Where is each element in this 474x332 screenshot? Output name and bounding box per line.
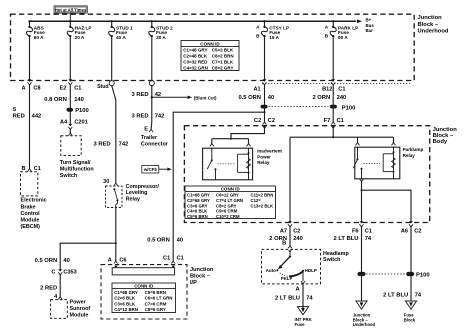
svg-text:C7=6 CRM: C7=6 CRM (145, 301, 167, 306)
svg-text:Block –: Block – (418, 22, 439, 28)
svg-text:A1: A1 (253, 87, 260, 93)
stud terminal 2 (149, 81, 154, 86)
pin A1 (253, 79, 266, 92)
svg-text:C6=12 GRY: C6=12 GRY (216, 193, 239, 198)
pin A C6 i/p (108, 258, 127, 268)
label INT PRK Fuse (295, 317, 313, 327)
svg-text:Relay: Relay (126, 197, 140, 203)
svg-text:C5=6 BRN: C5=6 BRN (187, 214, 208, 219)
svg-text:P100: P100 (416, 273, 430, 279)
switch contact arc dashed (280, 273, 291, 277)
svg-text:240: 240 (293, 236, 303, 242)
svg-text:Module: Module (21, 218, 40, 224)
svg-text:B12: B12 (322, 87, 332, 93)
pin B headlamp switch (282, 240, 292, 252)
wire ABS fuse to pin A C8 (29, 36, 31, 81)
svg-text:74: 74 (306, 296, 313, 302)
relay U2 parklamp relay (353, 147, 400, 179)
svg-text:Junction: Junction (190, 267, 214, 273)
pin arrows parklamp relay (356, 143, 360, 146)
label 2 ORN 240 (lower) (269, 236, 303, 242)
svg-text:C2=68 GRY: C2=68 GRY (187, 198, 210, 203)
pin E2 C1 (60, 79, 82, 91)
svg-text:F6: F6 (352, 229, 359, 235)
svg-text:Leveling: Leveling (126, 190, 148, 196)
label compressor leveling relay (126, 184, 160, 203)
svg-text:2 LT BLU: 2 LT BLU (333, 236, 358, 242)
node parklamp output tee (361, 189, 363, 191)
svg-text:C1=48 GRY: C1=48 GRY (183, 48, 207, 53)
svg-text:C8=2 GRY: C8=2 GRY (212, 66, 234, 71)
electronic brake control module EBCM box (21, 172, 38, 196)
svg-text:C5=6 BRN: C5=6 BRN (145, 290, 166, 295)
svg-text:C2: C2 (293, 229, 300, 235)
svg-text:C6=2 BRN: C6=2 BRN (212, 54, 234, 59)
svg-text:C4=6 BLK: C4=6 BLK (187, 209, 208, 214)
switch contact arc solid hdlp (289, 271, 303, 276)
svg-text:Brake: Brake (21, 204, 36, 210)
svg-text:Junction: Junction (418, 15, 443, 21)
node sunroof branch tee (115, 242, 117, 244)
splice P100 park (330, 105, 355, 112)
svg-text:C12=: C12= (251, 198, 262, 203)
svg-text:C3=6 GRY: C3=6 GRY (187, 203, 208, 208)
wire rail drop to A7 (289, 137, 291, 223)
svg-text:Block –: Block – (433, 133, 454, 139)
svg-text:CONN ID: CONN ID (221, 187, 241, 192)
svg-text:P100: P100 (75, 108, 89, 114)
svg-text:C1: C1 (338, 87, 345, 93)
fuse HAZ LP 20A (67, 20, 91, 40)
svg-text:B: B (282, 240, 286, 246)
svg-text:40 A: 40 A (116, 35, 126, 40)
svg-text:C13=2 BLK: C13=2 BLK (251, 203, 274, 208)
pin A6 C2 (401, 221, 422, 234)
svg-text:C9=6 CRM: C9=6 CRM (216, 209, 238, 214)
svg-text:C1: C1 (163, 255, 170, 261)
svg-text:C3=6 BLK: C3=6 BLK (114, 301, 136, 306)
svg-text:40: 40 (63, 258, 69, 264)
conn id table underhood (181, 41, 239, 71)
wire 5 RED 442 to EBCM (29, 85, 31, 169)
label 3 RED 742 (stud1) (94, 142, 129, 148)
svg-text:CONN ID: CONN ID (134, 284, 154, 289)
wire relay top rail (212, 138, 249, 140)
svg-text:0.5 ORN: 0.5 ORN (35, 258, 58, 264)
label Hot at All Times (54, 6, 87, 21)
pin C1 C1 i/p (163, 255, 184, 267)
label 5 RED 442 (13, 107, 42, 119)
svg-text:(EBCM): (EBCM) (21, 224, 41, 230)
svg-text:INT PRK: INT PRK (295, 317, 313, 322)
svg-text:C1: C1 (177, 255, 184, 261)
connector C353 pin C (51, 269, 76, 275)
wire relay output to A C6 (115, 208, 117, 262)
svg-text:C1=68 GRY: C1=68 GRY (114, 290, 138, 295)
svg-text:40: 40 (268, 95, 274, 101)
svg-text:3 RED: 3 RED (94, 142, 111, 148)
svg-text:RED: RED (13, 114, 25, 120)
svg-text:A: A (22, 86, 26, 92)
svg-text:w/CF5: w/CF5 (143, 167, 157, 172)
svg-text:Inadvertent: Inadvertent (257, 148, 282, 153)
svg-text:C4=12 BRN: C4=12 BRN (114, 307, 138, 312)
svg-text:C353: C353 (63, 269, 76, 275)
junction block underhood dashed box (11, 14, 415, 80)
fuse CTSY LP 15A (256, 20, 289, 40)
svg-text:2 LT BLU: 2 LT BLU (275, 296, 300, 302)
svg-text:C201: C201 (74, 120, 87, 126)
svg-text:Fuse: Fuse (295, 322, 306, 327)
connector C201 pin A4 (60, 120, 88, 130)
fuse STUD 1 40A (109, 20, 133, 40)
svg-text:C8: C8 (33, 86, 40, 92)
svg-text:Relay: Relay (257, 160, 270, 165)
svg-text:Module: Module (70, 312, 89, 318)
svg-text:Headlamp: Headlamp (323, 251, 349, 257)
pin 30 compressor relay (103, 179, 118, 186)
offpage connector fuse block (405, 301, 416, 309)
label 2 LT BLU 74 (a6) (383, 293, 422, 299)
svg-text:C2: C2 (414, 229, 421, 235)
node F7 tee (332, 136, 334, 138)
svg-text:C2: C2 (268, 118, 275, 124)
label 2 LT BLU 74 (f6) (333, 236, 371, 242)
svg-text:C4=32 GRN: C4=32 GRN (183, 66, 208, 71)
svg-text:C11=2 BRN: C11=2 BRN (251, 193, 274, 198)
label Junction Block - Underhood (418, 15, 449, 34)
relay U1 inadvertent power relay (203, 148, 253, 180)
svg-text:B+: B+ (366, 17, 372, 22)
wire STUD2 fuse to stud (151, 36, 153, 81)
wire F6 to junction block underhood (361, 226, 363, 301)
label 3 RED 742 (stud2) (132, 114, 165, 120)
stud terminal 1 (97, 81, 114, 90)
svg-text:0.8 ORN: 0.8 ORN (44, 97, 67, 103)
svg-text:240: 240 (337, 95, 347, 101)
svg-text:C7=1 BLK: C7=1 BLK (212, 60, 234, 65)
label 0.8 ORN 140 (44, 97, 84, 103)
headlamp switch box (262, 249, 321, 284)
svg-text:C6=6 LT GRN: C6=6 LT GRN (145, 296, 173, 301)
label 3 RED 42 (132, 92, 162, 98)
label parklamp relay (403, 147, 424, 158)
svg-text:0.5 ORN: 0.5 ORN (147, 237, 170, 243)
wire C201 to turn signal switch (69, 129, 71, 133)
svg-text:Junction: Junction (433, 127, 458, 133)
svg-text:Switch: Switch (323, 257, 340, 263)
svg-text:C1: C1 (365, 229, 372, 235)
label 0.5 ORN 40 (upper) (238, 95, 274, 101)
svg-text:F7: F7 (324, 118, 331, 124)
svg-text:Stud: Stud (97, 84, 109, 90)
label inadvertent power relay (257, 148, 282, 165)
svg-text:A7: A7 (280, 229, 287, 235)
svg-text:Connector: Connector (141, 142, 169, 148)
wire rail drops (211, 139, 213, 144)
node branch 112 (264, 111, 266, 113)
svg-text:0.5 ORN: 0.5 ORN (238, 95, 261, 101)
svg-text:C3=32 RED: C3=32 RED (183, 60, 208, 65)
svg-text:CONN ID: CONN ID (200, 41, 220, 46)
pin arrows inadvertent relay (210, 144, 214, 147)
wire STUD1 fuse to stud (111, 36, 113, 81)
svg-text:Turn Signal/: Turn Signal/ (60, 160, 91, 166)
svg-text:Underhood: Underhood (353, 322, 376, 327)
wire branch to C1 C1 i/p (173, 112, 264, 261)
svg-text:C: C (51, 269, 55, 275)
wire branch to sunroof (60, 243, 116, 269)
svg-text:A6: A6 (401, 229, 408, 235)
fuse STUD 2 30A (149, 20, 173, 40)
svg-text:(Blunt Cut): (Blunt Cut) (194, 96, 217, 101)
svg-text:Switch: Switch (60, 173, 77, 179)
wire 3 RED 742 stud1 to relay 30 (112, 86, 116, 184)
pin B12 C1 (322, 79, 345, 92)
pin A C8 (22, 79, 41, 91)
svg-text:C1: C1 (34, 166, 41, 172)
svg-text:2 LT BLU: 2 LT BLU (383, 293, 408, 299)
svg-text:A4: A4 (60, 120, 68, 126)
wire F7 entry to parklamp rail (332, 126, 334, 138)
svg-text:A: A (296, 286, 300, 292)
svg-text:Power: Power (70, 299, 87, 305)
pin C2 C2 body (254, 118, 275, 129)
node relay feed tee (230, 138, 232, 140)
label 0.5 ORN 40 (cf5 wire) (147, 237, 183, 243)
svg-text:PKLP: PKLP (281, 276, 293, 281)
splice P100 a6 (406, 272, 429, 279)
svg-text:30 A: 30 A (156, 35, 166, 40)
offpage connector INT PRK fuse (297, 307, 308, 315)
label EBCM (21, 198, 47, 230)
wire C2 entry to inadvertent relay (231, 126, 265, 139)
svg-text:C8=2 GRY: C8=2 GRY (216, 203, 237, 208)
svg-text:2 ORN: 2 ORN (312, 95, 330, 101)
svg-text:Power: Power (257, 154, 271, 159)
dashed splice link P100 (269, 106, 329, 108)
svg-text:Auto: Auto (266, 268, 276, 273)
wire to blunt cut (152, 96, 192, 99)
wire CTSY fuse to pin A1 (264, 36, 266, 81)
svg-text:Hot at All Times: Hot at All Times (55, 7, 87, 12)
svg-text:C7=4 LT GRN: C7=4 LT GRN (216, 198, 243, 203)
svg-text:C2=6 BLK: C2=6 BLK (114, 296, 136, 301)
svg-text:Bus: Bus (366, 23, 375, 28)
svg-text:C10=2 CRM: C10=2 CRM (216, 214, 240, 219)
splice P100 haz (67, 108, 89, 114)
svg-text:E: E (144, 126, 148, 132)
svg-text:Multifunction: Multifunction (60, 166, 94, 172)
wire 3 RED 742 to trailer connector (151, 97, 153, 122)
svg-text:30: 30 (103, 179, 109, 185)
svg-text:Compressor/: Compressor/ (126, 184, 160, 190)
svg-text:C6: C6 (119, 258, 126, 264)
svg-text:90 A: 90 A (338, 35, 348, 40)
label B+ Bus Bar (366, 17, 375, 33)
wire A6 to fuse block (410, 226, 412, 301)
splice P100 ctsy (261, 105, 268, 109)
svg-text:140: 140 (74, 97, 84, 103)
conn id table body (185, 186, 276, 219)
internal dotted bus along underhood box bottom (262, 83, 412, 85)
svg-text:HDLP: HDLP (305, 268, 317, 273)
svg-text:20 A: 20 A (75, 35, 85, 40)
wire parklamp output (361, 182, 363, 223)
svg-text:60 A: 60 A (34, 35, 44, 40)
svg-text:Relay: Relay (403, 153, 416, 158)
wire HAZ fuse to pin E2 C1 (69, 36, 71, 81)
label Junction Block - I/P (190, 267, 214, 286)
label turn signal multifunction switch (60, 160, 94, 179)
wire branch to A6 (362, 190, 412, 223)
wire hdlp contact down (302, 271, 304, 281)
pin F6 C1 (352, 221, 372, 234)
svg-text:C1: C1 (74, 86, 81, 92)
label headlamp switch (323, 251, 349, 263)
pin E trailer connector (144, 122, 153, 132)
turn signal / multifunction switch box (61, 133, 81, 156)
pin arrow parklamp output (360, 179, 364, 182)
label power sunroof module (70, 299, 91, 318)
svg-text:Control: Control (21, 211, 41, 217)
label 0.5 ORN 40 (sunroof) (35, 258, 70, 264)
fuse ABS 60A (26, 20, 45, 40)
wire 2 ORN 240 from B12 (332, 85, 334, 123)
compressor leveling relay box (106, 186, 123, 208)
svg-text:742: 742 (155, 114, 165, 120)
power sunroof module box (51, 297, 68, 319)
svg-text:Parklamp: Parklamp (403, 147, 424, 152)
svg-text:Body: Body (433, 139, 448, 145)
svg-text:15 A: 15 A (269, 35, 279, 40)
offpage connector junction block underhood (356, 301, 367, 309)
svg-text:C8=6 GRY: C8=6 GRY (145, 307, 166, 312)
pin A7 C2 (280, 221, 301, 234)
i/p internal bus bar (112, 266, 174, 275)
wire A7 to headlamp switch (289, 226, 291, 246)
svg-text:B: B (22, 166, 26, 172)
label 2 LT BLU 74 (headlamp) (275, 296, 313, 302)
svg-text:Underhood: Underhood (418, 28, 449, 34)
svg-text:Electronic: Electronic (21, 198, 47, 204)
wire 2 LT BLU 74 to int prk fuse (302, 284, 304, 308)
svg-text:P100: P100 (342, 105, 356, 111)
label trailer connector (141, 135, 169, 148)
svg-text:C2: C2 (254, 118, 261, 124)
label Fuse Block (404, 312, 416, 322)
svg-text:C1: C1 (337, 118, 344, 124)
svg-text:A: A (108, 258, 112, 264)
svg-text:E2: E2 (60, 86, 67, 92)
splice P100 f6 (358, 272, 366, 276)
svg-text:742: 742 (119, 142, 129, 148)
label 2 ORN 240 (upper) (312, 95, 346, 101)
dashed splice link lower (366, 273, 406, 275)
pin A headlamp out (296, 281, 305, 292)
pin B C1 EBCM (22, 166, 41, 172)
svg-text:C2=48 BLK: C2=48 BLK (183, 54, 208, 59)
wire 3 RED 42 stud2 (151, 86, 153, 98)
wire 0.8 ORN 140 (69, 85, 71, 124)
label Junction Block - Body (433, 127, 458, 145)
node blunt cut branch (151, 96, 153, 98)
svg-text:Block –: Block – (190, 273, 210, 279)
wire 0.5 ORN 40 from A1 (264, 85, 266, 123)
svg-text:2 RED: 2 RED (40, 285, 57, 291)
svg-text:74: 74 (365, 236, 372, 242)
svg-text:Sunroof: Sunroof (70, 306, 91, 312)
pin F7 C1 body (324, 118, 344, 129)
B+ bus bar wire (30, 20, 363, 24)
wire rail drops to parklamp relay (357, 137, 359, 142)
svg-text:I/P: I/P (190, 280, 197, 286)
svg-text:C5=2 BLK: C5=2 BLK (212, 48, 234, 53)
svg-text:40: 40 (177, 237, 183, 243)
label Junction Block - Underhood (bottom) (353, 312, 376, 327)
svg-text:74: 74 (415, 293, 422, 299)
wire PARK fuse to pin B12 C1 (332, 36, 334, 81)
conn id table i/p (112, 283, 176, 313)
wire parklamp feed rail (290, 136, 394, 138)
switch S1 headlamp internal (276, 251, 304, 277)
svg-text:3 RED: 3 RED (132, 114, 149, 120)
fuse PARK LP 90A (325, 20, 358, 40)
svg-text:C1=68 GRY: C1=68 GRY (187, 193, 210, 198)
svg-text:3 RED: 3 RED (132, 92, 149, 98)
svg-text:442: 442 (32, 114, 42, 120)
wire 2 RED to sunroof (59, 275, 61, 297)
junction block body dashed box (184, 126, 429, 223)
svg-text:Block: Block (404, 317, 416, 322)
svg-text:Bar: Bar (366, 28, 374, 33)
label w/CF5 (142, 165, 172, 173)
svg-text:Trailer: Trailer (141, 135, 158, 141)
junction block I/P dashed box (101, 265, 187, 319)
